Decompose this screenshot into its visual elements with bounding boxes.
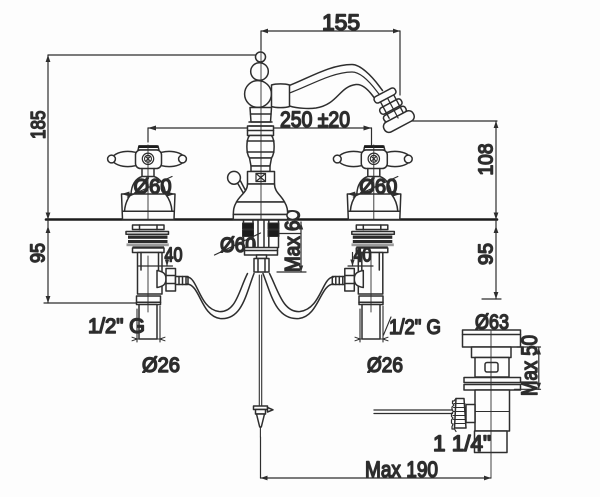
right handle: skirt (347, 194, 401, 220)
right handle: center line (373, 145, 375, 219)
right handle: axis line (335, 158, 412, 160)
center column: second ball (251, 63, 269, 81)
left handle: center line (147, 145, 149, 219)
drain: lower body (475, 390, 510, 431)
pop-up rod (258, 275, 260, 406)
dimension 185 vertical line (44, 55, 256, 303)
dimension 250 +-20 (148, 126, 372, 146)
left handle: axis line (109, 158, 186, 160)
center column: bell base (237, 184, 285, 202)
left shank: hose crimp nipple (176, 277, 189, 285)
left shank: body (138, 253, 163, 295)
drain: center line (490, 331, 492, 478)
drain: knurl collar (466, 405, 475, 423)
hose right (270, 274, 334, 312)
right handle: left arm ball (333, 155, 341, 163)
left handle: hub (136, 150, 162, 169)
svg-text:Ø60: Ø60 (134, 175, 172, 199)
left shank: diameter 26 extension lines (132, 306, 165, 342)
drain: neck (472, 347, 512, 358)
drain: horizontal rod (374, 409, 453, 411)
svg-text:1 1/4": 1 1/4" (433, 431, 491, 456)
left shank: gray band (127, 243, 169, 246)
center column: screw symbol (256, 174, 266, 182)
left handle: right arm ball (179, 155, 187, 163)
dimension Ø60 right arrows (347, 192, 401, 197)
center column: main spout ball (245, 81, 272, 108)
right shank: half-inch leader line (384, 317, 392, 335)
left shank: lower tube (139, 305, 157, 340)
right shank: lower collar (359, 296, 383, 305)
left handle: left arm (113, 151, 135, 166)
dimension Max 190 (261, 437, 492, 480)
deck ball right of column (287, 211, 298, 219)
svg-text:1/2" G: 1/2" G (389, 316, 441, 339)
dimension Max 50 (515, 347, 542, 389)
right handle: left arm (339, 151, 361, 166)
drain: tailpiece (475, 431, 508, 453)
right shank: hex nut under deck (356, 225, 388, 230)
spout outlet reference line (411, 120, 497, 122)
dimension 155 (261, 29, 400, 95)
svg-text:250 ±20: 250 ±20 (280, 107, 350, 132)
drain: washer band 1 (464, 378, 521, 383)
right handle: screw (368, 153, 379, 164)
right shank: dark thin band (356, 246, 388, 248)
dimension 108 / 95 right vertical line (482, 121, 501, 299)
drain: washer band 2 (464, 385, 521, 391)
left handle: screw (142, 153, 153, 164)
right shank: side port bulge (354, 271, 363, 288)
left shank: lower hex nut (133, 248, 165, 253)
svg-text:Ø63: Ø63 (475, 311, 509, 334)
right shank: dark band 1 (353, 236, 393, 239)
svg-text:Ø60: Ø60 (359, 175, 397, 199)
drain: rod axis through body (475, 411, 510, 413)
left shank: hex nut under deck (133, 225, 165, 230)
right handle: right arm ball (404, 155, 412, 163)
center mount: bracket plate (245, 248, 278, 256)
dimension 40 left (139, 253, 173, 267)
left shank: side port bulge (157, 271, 166, 288)
right handle: dome (357, 177, 392, 195)
right shank: gray band (352, 243, 394, 246)
center mount: lower nut (257, 255, 267, 259)
center column: ring stack (248, 126, 274, 136)
center column: barrel (247, 136, 274, 159)
svg-text:Ø26: Ø26 (367, 354, 403, 377)
svg-text:155: 155 (322, 10, 360, 35)
center column: neck (250, 108, 272, 123)
spout tube (288, 65, 383, 91)
center column: center line (260, 44, 262, 220)
center column: lever stick (238, 181, 246, 193)
right shank: lower tube (362, 305, 380, 340)
svg-text:95: 95 (476, 243, 498, 265)
svg-text:95: 95 (28, 243, 50, 263)
right handle: right arm (387, 151, 409, 166)
dimension Ø60 left arrows (122, 192, 176, 197)
right shank: body (358, 253, 383, 295)
hose left (187, 274, 248, 312)
left handle: stem (142, 169, 154, 177)
center column: taper to block (250, 158, 272, 166)
svg-text:Max 50: Max 50 (517, 335, 542, 396)
dimension Max 60 (277, 222, 306, 272)
pop-up rod joint (254, 406, 268, 410)
spout collar (272, 84, 290, 108)
left shank: dark thin band (133, 246, 165, 248)
right shank: wide plate (352, 232, 395, 235)
drain: upper body (475, 358, 509, 378)
left shank: wide plate (126, 232, 169, 235)
drain: flange (463, 330, 521, 347)
center mount: left stud nuts (243, 223, 254, 229)
left shank: lower collar (137, 296, 161, 305)
deck line (46, 218, 497, 221)
center mount: right stud (268, 220, 270, 248)
label Ø60 left leader (128, 177, 173, 198)
left handle: skirt (122, 194, 176, 220)
left shank: side hex (166, 269, 176, 292)
left handle: left arm ball (108, 155, 116, 163)
drain: knurled knob (455, 399, 467, 429)
left handle: dome (131, 177, 166, 195)
svg-text:185: 185 (28, 111, 50, 140)
right shank: lower hex nut (356, 248, 388, 253)
svg-text:Ø26: Ø26 (142, 354, 180, 377)
right handle: stem (368, 169, 380, 177)
center column: screw block (248, 172, 275, 185)
left shank: dark band 2 (128, 240, 168, 243)
label Ø60 right leader (353, 177, 398, 198)
svg-text:40: 40 (165, 245, 183, 267)
left shank: dark band 1 (128, 236, 168, 239)
center mount: right stud nuts (268, 223, 279, 229)
svg-text:Max 190: Max 190 (365, 457, 438, 482)
center mount: center stem (257, 220, 259, 248)
right shank: dark band 2 (353, 240, 393, 243)
right shank: hose crimp nipple (332, 277, 345, 285)
left handle: right arm (162, 151, 184, 166)
right shank: diameter 26 extension lines (355, 306, 388, 342)
svg-text:40: 40 (354, 245, 372, 267)
left handle: cap (138, 146, 159, 150)
svg-text:1/2" G: 1/2" G (88, 315, 145, 338)
center column: lever ball (228, 171, 241, 184)
right handle: hub (361, 150, 387, 169)
center mount: left stud (243, 220, 245, 248)
right handle: cap (364, 146, 385, 150)
center column: top ball (256, 52, 266, 62)
svg-text:108: 108 (476, 144, 498, 176)
right shank: side hex (345, 269, 355, 292)
drain: overflow slot (485, 363, 498, 373)
aerator (369, 85, 416, 134)
pop-up rod tip (257, 414, 265, 427)
label Ø60 center leader (215, 233, 261, 255)
dimension 40 right (348, 253, 373, 267)
